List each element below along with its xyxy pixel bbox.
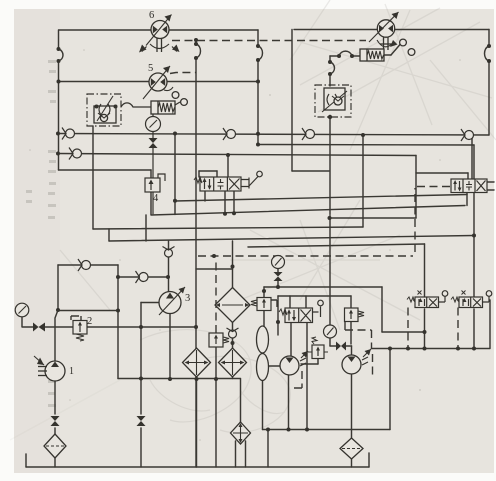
svg-text:5: 5: [148, 63, 153, 74]
svg-text:6: 6: [149, 10, 154, 21]
svg-text:3: 3: [185, 293, 190, 304]
svg-text:1: 1: [69, 366, 74, 377]
svg-text:4: 4: [153, 193, 159, 204]
svg-text:2: 2: [87, 316, 92, 327]
